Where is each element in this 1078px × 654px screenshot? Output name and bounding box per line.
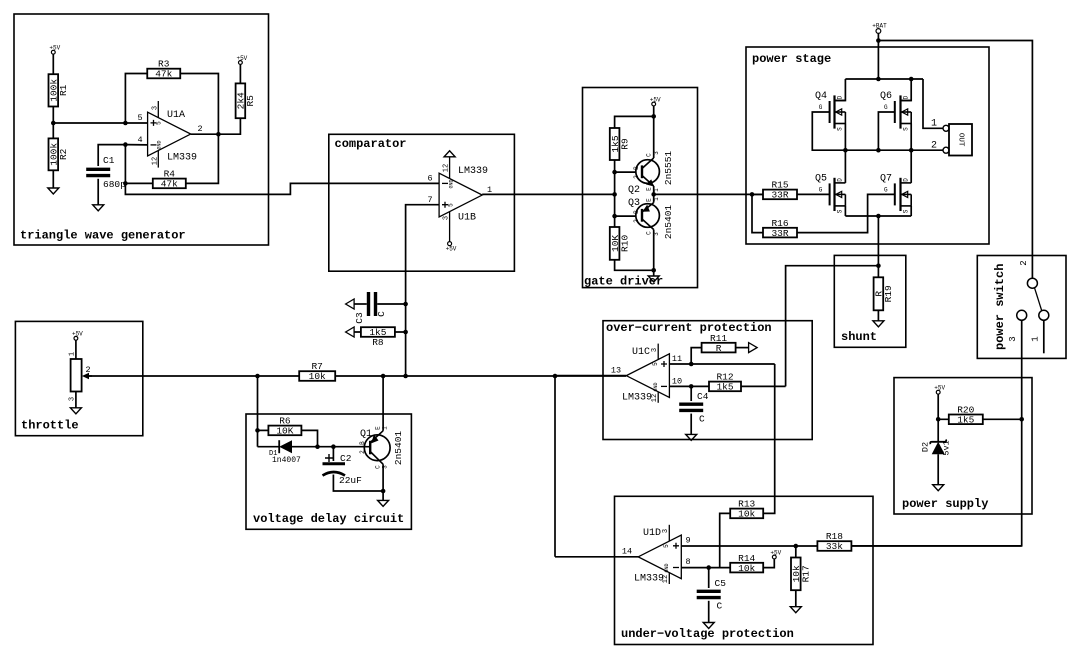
section box: triangle wave generator — [14, 14, 269, 245]
wire R16 left leg — [752, 194, 763, 232]
op-amp U1B — [427, 157, 492, 242]
svg-text:C4: C4 — [697, 391, 709, 402]
section box: power supply — [894, 378, 1032, 514]
wire R5 to output node — [218, 118, 240, 134]
svg-text:GND: GND — [449, 179, 455, 188]
wire Q5 drain riser — [844, 150, 846, 183]
wire R8 row — [354, 331, 406, 333]
junction pin8/C5 — [706, 565, 711, 570]
svg-text:D: D — [903, 178, 910, 182]
svg-text:G: G — [884, 186, 888, 193]
wire Q1 emitter riser to main line — [382, 376, 384, 431]
wire +BAT to power switch pin 2 — [878, 41, 1032, 279]
wire R10 — [614, 216, 616, 227]
wire Q2 collector riser — [653, 116, 655, 158]
transistor Q2 (2n5551 NPN) — [628, 151, 674, 196]
svg-text:E: E — [646, 187, 653, 191]
wire R9 to base node — [614, 160, 616, 172]
resistor R5 — [236, 83, 257, 118]
section box: gate driver — [583, 88, 698, 288]
switch SW1 pin 1 circle — [1039, 310, 1049, 320]
wire Q6 source to mid rail — [910, 124, 912, 151]
junction bottom rail shunt tap — [876, 214, 881, 219]
svg-text:C: C — [375, 465, 382, 469]
svg-text:R15: R15 — [771, 180, 788, 191]
wire top rail — [845, 78, 923, 80]
svg-text:22uF: 22uF — [339, 475, 362, 486]
ground below C1 — [93, 205, 104, 211]
wire D2 top — [937, 419, 939, 442]
junction pin9/R17/R18 — [794, 544, 799, 549]
power +BAT — [872, 23, 887, 34]
resistor R19 — [874, 277, 895, 310]
wire D1 left — [258, 446, 280, 448]
U1C power stub top — [657, 344, 659, 360]
svg-text:10k: 10k — [309, 371, 326, 382]
svg-text:8: 8 — [685, 557, 690, 567]
pot wiper arrow — [82, 373, 89, 380]
wire R4 left leg — [124, 145, 126, 184]
junction R15/R16 — [750, 192, 755, 197]
power +5V for R1 — [49, 45, 60, 55]
wire U1D pin 8 row — [681, 567, 730, 569]
svg-text:13: 13 — [611, 366, 621, 376]
svg-text:C: C — [646, 231, 653, 235]
svg-text:R11: R11 — [710, 333, 727, 344]
svg-text:C5: C5 — [715, 578, 727, 589]
wire switch pin 3 to R20/R18 — [851, 320, 1021, 546]
wire Q4 gate — [812, 112, 845, 150]
wire Q3 emitter to line — [653, 194, 655, 202]
mosfet arrow lead — [836, 111, 846, 113]
svg-text:2: 2 — [197, 124, 202, 134]
section box: throttle — [15, 321, 142, 435]
junction pin11/R11 — [689, 362, 694, 367]
svg-text:2n5401: 2n5401 — [663, 205, 674, 240]
capacitor C1 — [86, 155, 126, 190]
svg-text:12: 12 — [651, 394, 659, 402]
svg-text:power supply: power supply — [902, 497, 988, 511]
svg-text:10: 10 — [672, 377, 682, 387]
mosfet D lead — [901, 182, 912, 184]
junction R8 node — [403, 330, 408, 335]
resistor R13 — [730, 499, 763, 520]
transistor Q3 (2n5401 PNP) — [628, 197, 674, 239]
resistor R18 — [817, 531, 851, 552]
svg-text:B: B — [359, 441, 366, 445]
wire Q2 emitter to line — [653, 186, 655, 194]
power +5V gate driver — [650, 96, 661, 106]
svg-text:C: C — [717, 601, 723, 612]
svg-text:1k5: 1k5 — [716, 382, 733, 393]
hierarchical arrow for R11 — [749, 343, 758, 353]
wire mid rail — [845, 149, 943, 151]
svg-text:R5: R5 — [245, 95, 256, 107]
ground below R17 — [790, 607, 801, 613]
junction ground node — [651, 268, 656, 273]
junction mid rail Q4/Q5 — [843, 148, 848, 153]
junction pin10/C4/R12 — [689, 384, 694, 389]
op-amp U1A — [137, 101, 202, 168]
svg-text:C1: C1 — [103, 155, 115, 166]
svg-text:D2: D2 — [921, 442, 931, 452]
Q2 emitter with arrow — [642, 176, 654, 187]
wire switch pin 1 stub — [1043, 320, 1045, 353]
svg-text:9: 9 — [685, 536, 690, 546]
wire R6 right leg — [302, 430, 318, 446]
junction U1A output node — [216, 132, 221, 137]
svg-text:C: C — [376, 311, 387, 317]
wire D2 to ground — [937, 454, 939, 485]
wire R2 to ground — [52, 170, 54, 188]
wire R13 left leg — [720, 513, 731, 567]
junction main/voltage-delay — [255, 374, 260, 379]
svg-text:R: R — [716, 343, 722, 354]
svg-text:throttle: throttle — [21, 419, 79, 433]
wire +BAT down to top rail — [877, 33, 879, 79]
wire R4 right leg — [186, 134, 219, 183]
section box: power switch — [977, 256, 1066, 359]
svg-text:R3: R3 — [158, 59, 170, 70]
wire U1C pin 10 row — [669, 385, 709, 387]
wire Q7 drain riser — [910, 150, 912, 183]
wire +5V node to R9 — [615, 116, 654, 128]
wire U1A output — [191, 133, 219, 135]
svg-text:680p: 680p — [103, 179, 126, 190]
svg-text:5: 5 — [156, 121, 163, 125]
svg-text:2: 2 — [633, 219, 640, 223]
wire C4 top — [690, 386, 692, 401]
wire Q2 base — [615, 171, 642, 173]
svg-text:R14: R14 — [738, 553, 755, 564]
mosfet arrow lead — [902, 193, 912, 195]
svg-text:D: D — [903, 95, 910, 99]
power +5V for R5 — [236, 55, 247, 65]
svg-text:comparator: comparator — [335, 137, 407, 151]
svg-text:47k: 47k — [161, 179, 178, 190]
svg-text:12: 12 — [443, 164, 451, 172]
resistor R9 — [610, 128, 631, 160]
wire bottom rail — [845, 215, 911, 217]
U1C power stub bottom — [657, 392, 659, 403]
wire C4 to ground — [690, 414, 692, 435]
switch SW1 pin 3 circle — [1017, 310, 1027, 320]
resistor R15 — [763, 180, 797, 201]
svg-text:Q1: Q1 — [360, 429, 372, 440]
svg-text:power switch: power switch — [993, 264, 1007, 350]
svg-text:under−voltage protection: under−voltage protection — [621, 627, 794, 641]
wire C3 left — [354, 303, 367, 305]
wire Q3 collector down — [653, 230, 655, 271]
svg-text:2: 2 — [633, 175, 640, 179]
junction main/under-voltage output — [553, 374, 558, 379]
svg-text:5v1: 5v1 — [942, 440, 952, 455]
mosfet arrow lead — [902, 111, 912, 113]
svg-text:R6: R6 — [279, 416, 291, 427]
junction main/comparator pin7 — [403, 374, 408, 379]
svg-text:U1B: U1B — [458, 213, 476, 224]
Q3 collector — [642, 219, 654, 230]
svg-text:10k: 10k — [738, 563, 755, 574]
junction R1/R2/pin5 — [51, 121, 56, 126]
U1D - input marker — [673, 567, 679, 569]
junction Q1 collector/C2/ground — [381, 489, 386, 494]
svg-text:R1: R1 — [58, 84, 69, 96]
U1B + input marker — [442, 202, 448, 208]
wire R3 left leg — [125, 74, 147, 124]
resistor R2 — [49, 138, 70, 170]
svg-text:R8: R8 — [372, 337, 384, 348]
junction top rail Q6 drain — [909, 77, 914, 82]
resistor R20 — [949, 405, 983, 426]
transistor Q5 (NMOS) — [815, 173, 845, 213]
U1B power stub pin 3 — [449, 211, 451, 241]
wire U1D pin 9 row — [681, 545, 817, 547]
wire triangle output to comparator pin 6 — [125, 183, 439, 194]
section box: over-current protection — [603, 321, 812, 440]
svg-text:C: C — [646, 153, 653, 157]
svg-text:11: 11 — [672, 354, 682, 364]
wire R10 to ground node — [615, 260, 654, 271]
ground below R19 — [873, 321, 884, 327]
wire +5V to R1 — [52, 54, 54, 74]
svg-text:Q5: Q5 — [815, 173, 827, 184]
transistor Q7 (NMOS) — [880, 173, 911, 213]
plus marker — [325, 454, 333, 462]
junction Q2 base node — [612, 170, 617, 175]
svg-text:4: 4 — [137, 135, 142, 145]
capacitor C1 top wire — [98, 145, 125, 166]
svg-text:S: S — [837, 209, 844, 213]
svg-text:3: 3 — [662, 529, 670, 533]
mosfet S lead — [835, 205, 846, 207]
capacitor C2 (polarized) — [323, 453, 363, 486]
junction R20 right on riser — [1019, 417, 1024, 422]
wire Q1 collector to ground node — [382, 464, 384, 491]
resistor R4 — [153, 169, 186, 190]
svg-text:2n5551: 2n5551 — [663, 151, 674, 186]
svg-text:Q3: Q3 — [628, 198, 640, 209]
junction Q3 base node — [612, 214, 617, 219]
svg-text:33R: 33R — [771, 190, 788, 201]
wire pin11 riser to R13 — [763, 364, 775, 513]
wire Q5 source down — [844, 206, 846, 216]
wire C2 bottom to Q1 collector node — [333, 475, 383, 492]
svg-text:S: S — [837, 127, 844, 131]
junction main line crossing — [612, 192, 617, 197]
svg-text:33R: 33R — [771, 228, 788, 239]
wire pot to ground — [75, 392, 77, 408]
wire throttle wiper to U1C output (main signal line) — [89, 375, 626, 377]
wire shunt to over-current sense — [786, 266, 879, 387]
svg-text:+5V: +5V — [236, 55, 247, 62]
svg-text:Q4: Q4 — [815, 91, 827, 102]
svg-text:Q7: Q7 — [880, 173, 892, 184]
svg-text:+5V: +5V — [72, 331, 83, 338]
svg-text:+5V: +5V — [934, 385, 945, 392]
wire bases vertical — [614, 172, 616, 216]
wire C5 to ground — [708, 601, 710, 623]
svg-text:1: 1 — [487, 185, 492, 195]
wire R1 to R2 through node — [52, 107, 54, 139]
junction C3 node — [403, 302, 408, 307]
svg-text:Q6: Q6 — [880, 91, 892, 102]
hierarchical arrow for R8 — [346, 327, 355, 337]
svg-text:1: 1 — [1031, 336, 1041, 341]
mosfet D lead — [901, 100, 912, 102]
svg-text:R2: R2 — [58, 148, 69, 160]
capacitor C4 — [679, 391, 709, 425]
svg-text:B: B — [633, 210, 640, 214]
svg-text:LM339: LM339 — [622, 393, 652, 404]
svg-text:R9: R9 — [619, 138, 630, 150]
junction shunt tap — [876, 263, 881, 268]
wire C3 right — [377, 303, 405, 305]
wire R3 right leg — [180, 74, 218, 135]
wire R20 row — [938, 418, 1022, 420]
svg-text:2: 2 — [359, 450, 366, 454]
svg-text:R10: R10 — [619, 235, 630, 252]
svg-text:shunt: shunt — [841, 330, 877, 344]
capacitor C5 — [697, 578, 727, 612]
svg-text:R13: R13 — [738, 499, 755, 510]
junction pin4 node — [123, 142, 128, 147]
svg-text:+5V: +5V — [446, 246, 457, 253]
resistor R1 — [49, 74, 70, 106]
transistor Q6 (NMOS) — [880, 91, 911, 131]
junction pin5/R3 — [123, 121, 128, 126]
svg-text:OUT: OUT — [957, 133, 965, 147]
wire U1D output — [555, 556, 638, 558]
svg-text:3: 3 — [152, 106, 160, 110]
svg-text:12: 12 — [152, 157, 160, 165]
ground below pot — [70, 408, 81, 414]
svg-text:C2: C2 — [340, 453, 352, 464]
resistor R11 — [702, 333, 736, 354]
svg-text:G: G — [884, 104, 888, 111]
svg-text:voltage delay circuit: voltage delay circuit — [253, 512, 404, 526]
wire R18 right — [851, 545, 1021, 547]
svg-text:3: 3 — [443, 216, 451, 220]
svg-text:3: 3 — [1008, 336, 1018, 341]
ground below D2 — [933, 485, 944, 491]
U1D power stub bottom — [668, 573, 670, 584]
wire R4 row — [125, 182, 152, 184]
svg-text:R7: R7 — [311, 361, 322, 372]
ground below C4 — [686, 434, 697, 440]
wire +5V to pot — [75, 340, 77, 359]
resistor R6 — [268, 416, 301, 437]
mosfet D lead — [835, 182, 846, 184]
wire D1 to Q1 base — [292, 446, 370, 448]
mosfet arrow lead — [836, 193, 846, 195]
wire rail corner to OUT pin 1 — [923, 79, 943, 128]
junction C2 node — [331, 444, 336, 449]
wire C2 top — [332, 447, 334, 461]
power +5V supply — [934, 385, 945, 395]
svg-text:R16: R16 — [771, 218, 788, 229]
wire power stage to shunt — [877, 216, 879, 277]
OUT pin 1 circle — [943, 125, 949, 131]
svg-text:U1D: U1D — [643, 528, 661, 539]
section box: shunt — [834, 255, 906, 347]
Q2 collector — [642, 158, 654, 169]
hierarchical arrow for C3 — [346, 299, 355, 309]
svg-text:E: E — [646, 198, 653, 202]
resistor R12 — [709, 372, 741, 393]
power +5V for R14 — [770, 549, 781, 558]
wire R6 row — [258, 429, 269, 431]
wire emitters to power stage (gate drive out) — [654, 193, 763, 195]
svg-text:over−current protection: over−current protection — [606, 321, 772, 335]
svg-text:power stage: power stage — [752, 52, 831, 66]
svg-text:G: G — [819, 104, 823, 111]
capacitor C3 — [354, 292, 387, 324]
resistor R8 — [361, 327, 395, 348]
ground above U1B — [444, 151, 455, 157]
U1D + input marker — [673, 543, 679, 549]
svg-text:2n5401: 2n5401 — [393, 431, 404, 466]
junction R4 left — [123, 181, 128, 186]
svg-text:R19: R19 — [883, 285, 894, 302]
power +5V below U1B — [446, 242, 457, 253]
U1C + input marker — [661, 361, 667, 367]
svg-text:10K: 10K — [276, 426, 293, 437]
wire Q3 base — [615, 215, 642, 217]
svg-text:2: 2 — [85, 365, 90, 375]
switch blade — [1035, 288, 1042, 310]
mosfet D lead — [835, 100, 846, 102]
svg-text:GND: GND — [664, 563, 670, 572]
wire R17 top — [795, 546, 797, 558]
junction mid rail Q6 gate — [876, 148, 881, 153]
wire R15 row — [752, 193, 830, 195]
junction top rail center — [876, 77, 881, 82]
svg-text:33k: 33k — [826, 541, 843, 552]
resistor R3 — [147, 59, 180, 80]
svg-text:LM339: LM339 — [167, 153, 197, 164]
transistor Q4 (NMOS) — [815, 91, 845, 131]
power +5V throttle — [72, 331, 83, 340]
svg-text:triangle wave generator: triangle wave generator — [20, 229, 186, 243]
U1D power stub top — [668, 525, 670, 541]
mosfet S lead — [901, 123, 912, 125]
svg-text:GND: GND — [157, 140, 163, 149]
wire Q4 source to mid rail — [844, 124, 846, 151]
resistor R7 — [299, 361, 335, 382]
resistor R14 — [730, 553, 763, 574]
op-amp U1C — [611, 344, 682, 404]
wire R11 left leg — [691, 348, 702, 364]
section box: voltage delay circuit — [246, 414, 411, 529]
svg-text:14: 14 — [622, 547, 632, 557]
diode D1 — [269, 440, 301, 465]
wire Q7 source down — [910, 206, 912, 216]
switch SW1 pin 2 circle — [1027, 278, 1037, 288]
U1B power stub pin 12 — [449, 157, 451, 179]
svg-text:D: D — [837, 178, 844, 182]
svg-text:47k: 47k — [155, 69, 172, 80]
resistor R10 — [610, 227, 631, 260]
svg-text:R18: R18 — [826, 531, 843, 542]
svg-text:Q2: Q2 — [628, 185, 640, 196]
wire Q4 drain — [835, 79, 846, 101]
wire R16 to Q7 gate — [797, 194, 895, 232]
Q1 emitter with arrow — [370, 431, 383, 443]
section box: power stage — [746, 47, 989, 244]
svg-text:LM339: LM339 — [458, 166, 488, 177]
junction emitters on line — [651, 192, 656, 197]
